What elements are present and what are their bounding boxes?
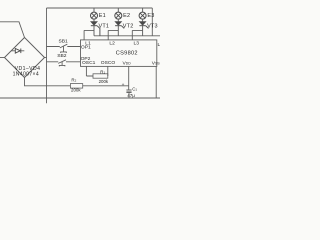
svg-text:CS9802: CS9802 bbox=[116, 51, 138, 57]
svg-text:R1: R1 bbox=[100, 69, 105, 74]
svg-text:E2: E2 bbox=[123, 13, 130, 19]
svg-text:47μ: 47μ bbox=[127, 93, 135, 98]
svg-text:1N4007×4: 1N4007×4 bbox=[13, 72, 39, 78]
svg-text:VDD: VDD bbox=[123, 60, 132, 66]
svg-text:VT2: VT2 bbox=[123, 23, 134, 29]
svg-text:E3: E3 bbox=[147, 13, 154, 19]
svg-text:VT3: VT3 bbox=[147, 23, 158, 29]
svg-text:E1: E1 bbox=[99, 13, 106, 19]
svg-text:C1: C1 bbox=[132, 86, 137, 91]
svg-text:SB1: SB1 bbox=[59, 39, 69, 45]
svg-text:SB2: SB2 bbox=[57, 53, 67, 59]
svg-text:L2: L2 bbox=[109, 40, 115, 46]
svg-text:200k: 200k bbox=[71, 88, 81, 93]
svg-text:+: + bbox=[122, 83, 125, 88]
svg-text:VT1: VT1 bbox=[99, 23, 110, 29]
svg-text:OSC1: OSC1 bbox=[82, 60, 96, 66]
svg-text:OSCO: OSCO bbox=[101, 60, 116, 66]
svg-text:L3: L3 bbox=[134, 40, 140, 46]
svg-text:R2: R2 bbox=[71, 77, 76, 82]
svg-text:200k: 200k bbox=[99, 79, 109, 84]
svg-text:L: L bbox=[158, 42, 161, 48]
svg-text:OP1: OP1 bbox=[81, 44, 91, 50]
svg-text:VSS: VSS bbox=[152, 60, 160, 66]
